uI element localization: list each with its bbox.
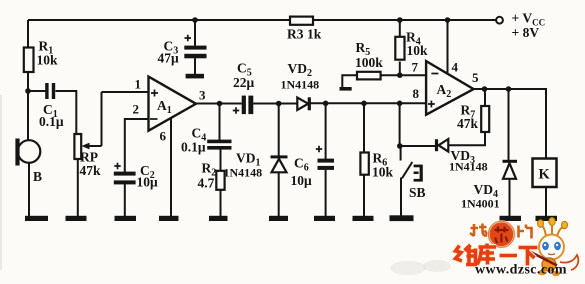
svg-text:10k: 10k: [37, 53, 59, 68]
svg-text:10k: 10k: [407, 43, 429, 58]
svg-text:47μ: 47μ: [158, 51, 180, 66]
svg-text:1k: 1k: [307, 27, 322, 42]
svg-text:B: B: [33, 169, 42, 184]
svg-text:5: 5: [472, 70, 479, 85]
svg-text:C6: C6: [294, 156, 309, 174]
svg-text:1: 1: [135, 77, 142, 92]
svg-text:4.7: 4.7: [198, 175, 215, 190]
svg-text:10μ: 10μ: [291, 173, 313, 188]
svg-text:8: 8: [413, 86, 420, 101]
svg-text:6: 6: [160, 129, 167, 144]
svg-text:10μ: 10μ: [137, 175, 159, 190]
svg-text:VD2: VD2: [288, 61, 313, 79]
svg-text:100k: 100k: [355, 55, 383, 70]
svg-text:1N4001: 1N4001: [461, 197, 500, 211]
svg-text:+ 8V: + 8V: [512, 25, 540, 40]
svg-text:47k: 47k: [457, 116, 479, 131]
svg-text:10k: 10k: [372, 164, 394, 179]
svg-text:1N4148: 1N4148: [281, 78, 320, 92]
svg-text:1N4148: 1N4148: [224, 166, 263, 180]
svg-text:www.dzsc.com: www.dzsc.com: [475, 263, 567, 278]
svg-text:0.1μ: 0.1μ: [181, 140, 206, 155]
svg-text:SB: SB: [409, 185, 426, 200]
svg-text:1N4148: 1N4148: [449, 160, 488, 174]
svg-text:22μ: 22μ: [233, 75, 255, 90]
svg-text:3: 3: [199, 88, 206, 103]
svg-text:7: 7: [412, 59, 419, 74]
svg-text:4: 4: [452, 60, 459, 75]
svg-text:2: 2: [133, 102, 140, 117]
svg-text:47k: 47k: [80, 163, 102, 178]
svg-text:K: K: [539, 166, 551, 182]
svg-text:R3: R3: [287, 27, 304, 42]
svg-text:0.1μ: 0.1μ: [39, 114, 64, 129]
